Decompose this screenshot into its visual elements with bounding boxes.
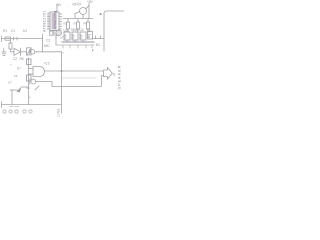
svg-text:C8: C8 [26,86,30,90]
svg-text:MIC: MIC [44,44,51,48]
svg-text:R4: R4 [84,22,88,26]
svg-text:C7: C7 [8,81,12,85]
svg-text:R3: R3 [74,22,78,26]
svg-text:AT89C2051: AT89C2051 [43,10,47,32]
svg-text:C1: C1 [11,29,15,33]
svg-text:.: . [44,91,45,95]
svg-text:R7: R7 [17,67,21,71]
svg-text:+: + [10,63,12,67]
svg-text:IC2: IC2 [45,62,50,66]
svg-text:TIP: TIP [64,34,68,39]
svg-text:+5V: +5V [56,3,63,7]
svg-text:TIP: TIP [72,34,76,39]
svg-text:16: 16 [14,74,18,78]
svg-text:C2: C2 [13,57,17,61]
svg-text:LINE: LINE [57,108,61,117]
svg-text:R6: R6 [20,57,24,61]
svg-text:AT89C2051: AT89C2051 [54,10,58,29]
svg-text:R2: R2 [64,22,68,26]
svg-text:R1: R1 [3,29,7,33]
svg-text:TIP: TIP [80,34,84,39]
svg-text:SPEAKER: SPEAKER [117,65,122,90]
svg-text:,: , [67,3,68,7]
svg-text:C3: C3 [46,39,50,43]
svg-text:C5: C5 [87,28,91,32]
svg-text:Q1: Q1 [77,2,81,6]
svg-text:X1: X1 [53,33,57,37]
svg-text:D1: D1 [23,29,27,33]
svg-text:+9V: +9V [87,0,94,4]
svg-text:B1: B1 [96,43,100,47]
svg-text:C4: C4 [80,28,84,32]
svg-text:+: + [29,96,31,100]
svg-text:TIP: TIP [87,34,91,39]
svg-text:U3: U3 [64,28,68,32]
svg-text:7805: 7805 [71,28,78,32]
svg-text:8: 8 [113,73,115,77]
